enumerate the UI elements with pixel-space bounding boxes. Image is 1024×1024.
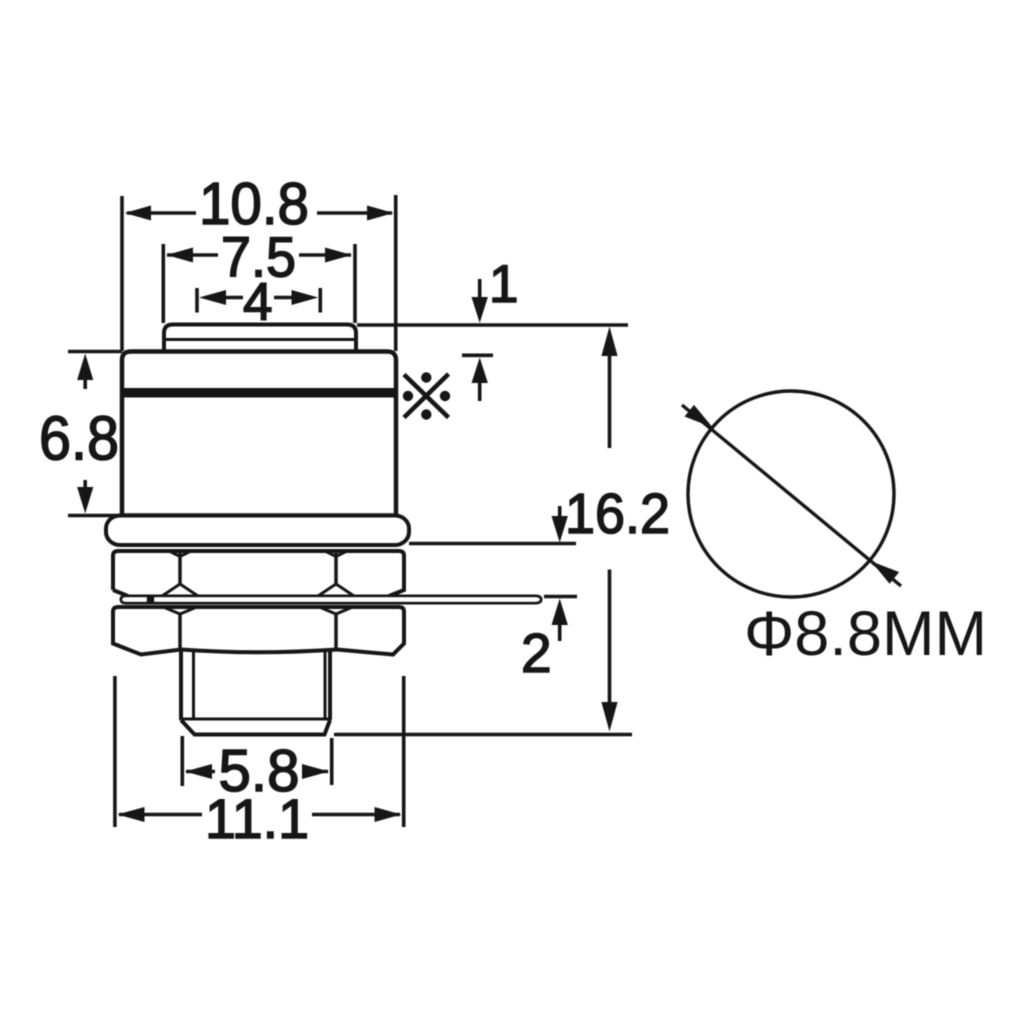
svg-text:4: 4: [243, 273, 272, 332]
upper hex nut: [113, 551, 404, 596]
svg-text:2: 2: [521, 622, 552, 684]
reference mark dots: [403, 372, 450, 419]
dim 5.8 dimension line: [186, 770, 328, 774]
dim 4 left tick: [195, 288, 199, 313]
svg-text:11.1: 11.1: [205, 787, 309, 850]
dim 6.8 bottom reference line (flange top level): [68, 514, 117, 518]
dim 11.1 extension lines: [115, 676, 404, 827]
diameter upper-left arrow: [685, 405, 713, 428]
dim 10.8 dimension line: [127, 211, 392, 215]
dim 16.2 up arrow: [601, 327, 617, 357]
svg-text:1: 1: [489, 255, 518, 314]
dim 2 lower arrow: [558, 625, 562, 641]
dim 4 dimension line: [222, 296, 296, 300]
threaded stem: [181, 649, 330, 735]
dim 10.8 extension lines: [122, 195, 396, 351]
dim 11.1 right arrow: [375, 807, 402, 822]
lower hex nut: [113, 607, 404, 655]
dim 2 upper arrow: [558, 506, 562, 520]
svg-text:6.8: 6.8: [39, 405, 119, 474]
dim 7.5 left arrow: [167, 248, 194, 263]
dim 16.2 dimension line upper segment: [608, 352, 612, 448]
body: [122, 352, 396, 517]
body bottom edge: [122, 513, 396, 517]
button cap: [164, 325, 356, 354]
dim 7.5 right arrow: [325, 248, 352, 263]
dim 16.2 dimension line lower segment: [608, 570, 612, 705]
dim 11.1 left arrow: [118, 807, 145, 822]
dim 1 upper arrow: [478, 279, 482, 300]
dim 10.8 right arrow: [367, 206, 394, 221]
dim 2 bottom tick (washer level): [544, 595, 577, 599]
dim 7.5 extension lines: [163, 244, 355, 323]
dim 5.8 right arrow: [302, 764, 329, 779]
button cap step line: [164, 338, 356, 341]
dim 11.1 dimension line: [119, 813, 400, 817]
dim 6.8 top reference line (body top level): [68, 350, 122, 354]
dim 16.2 bottom reference line: [334, 733, 632, 737]
dim 2 top reference line (flange bottom level): [409, 542, 576, 546]
diameter lower-right arrow: [871, 561, 899, 584]
svg-text:16.2: 16.2: [565, 482, 670, 546]
dim 4 right tick: [318, 288, 322, 313]
dim 1 lower arrow: [478, 382, 482, 401]
dim 5.8 extension lines: [182, 736, 331, 786]
dim 6.8 up arrow: [83, 376, 87, 389]
panel hole circle: [688, 391, 894, 597]
flange: [106, 516, 409, 546]
dim 4 right arrow: [292, 290, 319, 305]
dim 10.8 left arrow: [125, 206, 152, 221]
washer junction blob: [147, 597, 155, 604]
reference mark (kome) X strokes: [404, 374, 449, 418]
seal band: [123, 388, 395, 398]
dim 16.2 down arrow: [601, 702, 617, 732]
dim 1 lower tick (body top level): [462, 353, 493, 357]
washer: [121, 596, 541, 603]
dim 5.8 left arrow: [185, 764, 212, 779]
svg-text:Φ8.8MM: Φ8.8MM: [744, 599, 987, 669]
dim 6.8 down arrow: [83, 480, 87, 492]
diameter line: [682, 405, 901, 586]
dim 4 left arrow: [199, 290, 226, 305]
dim 7.5 dimension line: [167, 253, 351, 257]
dim 1 top reference line (cap top level): [357, 323, 628, 327]
